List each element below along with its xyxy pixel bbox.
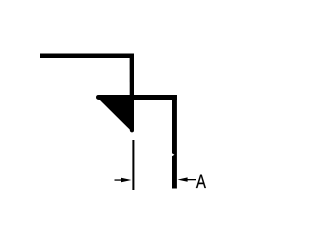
inner horizontal line [96,95,177,100]
top plate horizontal line [40,54,134,59]
right plate vertical line [172,95,177,189]
left dimension arrow shaft [115,179,123,180]
right dimension arrow shaft [187,179,196,180]
right dimension arrowhead [178,177,188,181]
vertical plate edge line (left) [130,54,134,133]
label A [196,175,206,188]
left dimension arrowhead [121,178,131,183]
fillet weld triangle [100,100,135,132]
notch in right plate line [172,153,174,156]
corner joint weld diagram [0,0,240,240]
thin extension line [132,140,134,190]
